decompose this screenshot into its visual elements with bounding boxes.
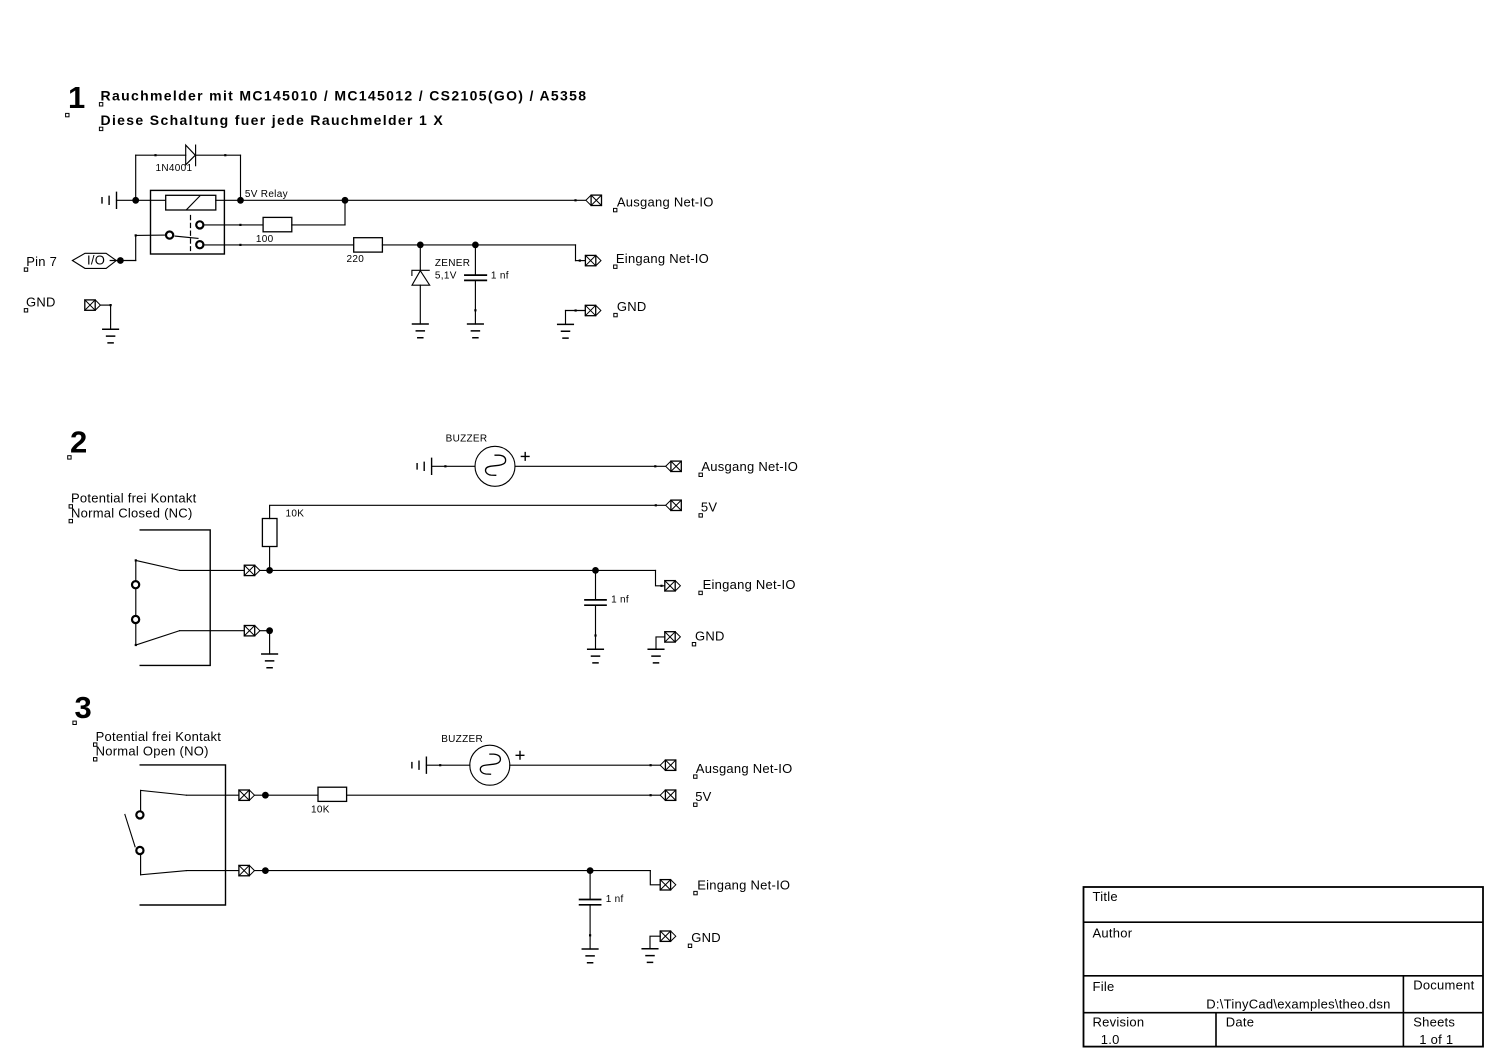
wire down to ground xyxy=(565,311,567,325)
svg-text:Sheets: Sheets xyxy=(1413,1015,1455,1030)
wire down to 5V relay node xyxy=(240,155,242,200)
ground below capacitor xyxy=(582,949,598,963)
svg-text:1 of 1: 1 of 1 xyxy=(1419,1032,1453,1047)
wire bottom blade to terminal xyxy=(180,630,245,632)
wire corner to Eingang xyxy=(650,871,660,885)
svg-text:Eingang Net-IO: Eingang Net-IO xyxy=(703,577,796,592)
title block row lines xyxy=(1084,922,1484,1013)
wire short from terminal xyxy=(260,630,270,632)
wire battery to relay coil xyxy=(117,199,166,201)
svg-text:220: 220 xyxy=(347,254,365,265)
wire tap up xyxy=(344,200,346,225)
wire zener to ground xyxy=(419,285,421,324)
switch S2 contact circles xyxy=(136,811,143,818)
svg-text:Ausgang Net-IO: Ausgang Net-IO xyxy=(701,459,798,474)
junction capacitor node xyxy=(587,867,594,874)
terminal GND xyxy=(660,931,676,941)
diode D1 1N4001 xyxy=(186,145,196,166)
wire top lead to terminal xyxy=(186,794,239,796)
svg-text:GND: GND xyxy=(695,628,725,643)
terminal on bottom contact xyxy=(244,626,260,636)
svg-text:2: 2 xyxy=(70,425,87,460)
svg-text:Normal Open (NO): Normal Open (NO) xyxy=(96,744,209,759)
switch S1 box xyxy=(140,530,210,666)
junction resistor tap xyxy=(342,197,349,204)
terminal GND right xyxy=(585,305,601,315)
switch S1 contact stem xyxy=(135,560,137,645)
svg-text:5,1V: 5,1V xyxy=(435,270,457,281)
switch S1 contact circles xyxy=(132,581,139,588)
ground below capacitor xyxy=(588,649,604,663)
wire down to ground xyxy=(269,631,271,654)
ground below capacitor xyxy=(468,324,484,338)
svg-text:Author: Author xyxy=(1093,926,1133,941)
relay coil xyxy=(166,195,216,210)
junction zener node xyxy=(417,242,424,249)
wire resistor bottom xyxy=(269,546,271,571)
switch S1 bottom blade xyxy=(136,631,180,645)
wire top main line xyxy=(260,569,656,571)
svg-text:1: 1 xyxy=(68,80,85,115)
wire corner down xyxy=(575,245,577,261)
junction capacitor node xyxy=(592,567,599,574)
terminal GND left xyxy=(85,300,101,310)
wire down to capacitor xyxy=(595,570,597,600)
battery B1 xyxy=(102,192,117,208)
wire capacitor to ground xyxy=(589,905,591,949)
switch S2 top stem xyxy=(140,790,142,874)
terminal on top contact xyxy=(244,565,260,575)
wire down to capacitor xyxy=(589,871,591,900)
terminal Eingang Net-IO xyxy=(585,255,601,265)
svg-text:Document: Document xyxy=(1413,978,1474,993)
terminal on top contact xyxy=(239,790,255,800)
terminal on bottom contact xyxy=(239,865,255,875)
junction at ground node xyxy=(266,627,273,634)
wire down to ground xyxy=(110,305,112,329)
svg-text:1.0: 1.0 xyxy=(1101,1032,1120,1047)
svg-text:1 nf: 1 nf xyxy=(491,270,509,281)
wire corner to Eingang xyxy=(656,570,665,585)
wire bottom lead to terminal xyxy=(186,870,239,872)
capacitor C1 1nf xyxy=(465,275,486,280)
buzzer BZ2 with battery xyxy=(412,745,524,785)
terminal Ausgang Net-IO xyxy=(666,461,682,471)
ground symbol xyxy=(642,949,658,963)
resistor R3 10K xyxy=(262,519,277,547)
svg-text:GND: GND xyxy=(691,930,721,945)
wire NO contact to R1 xyxy=(205,224,264,226)
svg-text:Diese Schaltung fuer jede Rauc: Diese Schaltung fuer jede Rauchmelder 1 … xyxy=(101,112,445,128)
wire GND terminal to corner xyxy=(100,304,110,306)
svg-text:Normal Closed (NC): Normal Closed (NC) xyxy=(71,505,193,520)
junction at battery node xyxy=(132,197,139,204)
wire buzzer to Ausgang terminal xyxy=(510,764,660,766)
wire terminal to resistor xyxy=(255,794,319,796)
junction 5V relay node xyxy=(237,197,244,204)
svg-text:Eingang Net-IO: Eingang Net-IO xyxy=(616,251,709,266)
switch S2 bottom lead xyxy=(141,871,187,875)
svg-text:3: 3 xyxy=(75,690,92,725)
svg-text:10K: 10K xyxy=(311,804,330,815)
svg-text:Potential frei Kontakt: Potential frei Kontakt xyxy=(96,729,222,744)
wire corner up xyxy=(135,235,137,260)
resistor R1 100 xyxy=(263,217,292,231)
svg-text:Ausgang Net-IO: Ausgang Net-IO xyxy=(696,761,793,776)
wire coil to Ausgang terminal xyxy=(216,199,586,201)
svg-text:Potential frei Kontakt: Potential frei Kontakt xyxy=(71,491,197,506)
svg-text:Eingang Net-IO: Eingang Net-IO xyxy=(697,877,790,892)
switch S2 box xyxy=(140,765,225,905)
resistor R2 220 xyxy=(354,238,383,252)
svg-text:ZENER: ZENER xyxy=(435,258,470,269)
switch S2 top lead xyxy=(141,790,187,795)
terminal GND xyxy=(665,632,681,642)
wire down to zener xyxy=(419,245,421,270)
svg-text:BUZZER: BUZZER xyxy=(446,434,488,445)
svg-text:BUZZER: BUZZER xyxy=(441,734,483,745)
ground symbol left xyxy=(103,329,119,343)
junction capacitor node xyxy=(472,242,479,249)
switch S1 top pivot xyxy=(135,559,137,561)
svg-text:Title: Title xyxy=(1093,889,1118,904)
title block frame xyxy=(1084,887,1484,1047)
terminal 5V xyxy=(660,790,676,800)
wire capacitor to ground xyxy=(595,605,597,649)
svg-text:5V: 5V xyxy=(701,500,717,515)
wire bottom main line xyxy=(255,870,651,872)
relay common contact xyxy=(166,232,173,239)
svg-text:100: 100 xyxy=(256,234,274,245)
terminal Ausgang Net-IO xyxy=(660,760,676,770)
resistor R4 10K xyxy=(318,787,347,801)
svg-text:Revision: Revision xyxy=(1093,1015,1145,1030)
svg-text:Rauchmelder mit MC145010 / MC1: Rauchmelder mit MC145010 / MC145012 / CS… xyxy=(101,88,588,104)
svg-text:1 nf: 1 nf xyxy=(611,595,629,606)
wire GND terminal to ground xyxy=(650,936,660,949)
wire resistor top to 5V line xyxy=(270,505,666,518)
title block column lines xyxy=(1216,976,1403,1047)
wire up from junction xyxy=(135,155,137,200)
terminal Eingang Net-IO xyxy=(665,581,681,591)
wire GND terminal to ground xyxy=(656,637,665,649)
I/O port symbol xyxy=(72,253,116,268)
junction at I/O pin xyxy=(117,257,124,264)
wire R2 to corner xyxy=(382,244,575,246)
capacitor C3 1nf xyxy=(580,900,601,905)
svg-text:5V: 5V xyxy=(695,789,711,804)
wire resistor to 5V terminal xyxy=(347,794,661,796)
terminal Eingang Net-IO xyxy=(660,880,676,890)
svg-text:GND: GND xyxy=(26,295,56,310)
svg-text:Ausgang Net-IO: Ausgang Net-IO xyxy=(617,194,714,209)
buzzer BZ1 with battery xyxy=(417,446,529,486)
svg-text:File: File xyxy=(1093,979,1115,994)
svg-text:GND: GND xyxy=(617,299,647,314)
wire to relay common xyxy=(136,234,166,236)
zener diode D2 xyxy=(412,270,430,285)
wire NC contact to R2 xyxy=(205,244,354,246)
junction after terminal xyxy=(262,867,269,874)
svg-text:I/O: I/O xyxy=(87,253,105,268)
wire down to capacitor xyxy=(474,245,476,275)
wire I/O to corner xyxy=(110,260,136,262)
wire top left to diode xyxy=(136,154,186,156)
relay NO contact xyxy=(196,221,203,228)
svg-text:1N4001: 1N4001 xyxy=(156,163,193,174)
svg-text:D:\TinyCad\examples\theo.dsn: D:\TinyCad\examples\theo.dsn xyxy=(1206,996,1390,1011)
svg-text:10K: 10K xyxy=(286,509,305,520)
svg-text:Date: Date xyxy=(1226,1015,1254,1030)
switch S1 bottom pivot xyxy=(135,644,137,646)
junction at resistor node xyxy=(262,792,269,799)
relay blade xyxy=(175,236,198,238)
relay dashed link xyxy=(190,216,192,251)
junction at resistor node xyxy=(266,567,273,574)
wire capacitor to ground xyxy=(474,280,476,324)
wire buzzer to Ausgang terminal xyxy=(515,465,666,467)
terminal 5V xyxy=(666,500,682,510)
ground symbol right xyxy=(558,324,574,338)
capacitor C2 1nf xyxy=(585,600,606,605)
svg-text:Pin 7: Pin 7 xyxy=(26,254,57,269)
svg-text:1 nf: 1 nf xyxy=(606,894,624,905)
wire top blade to terminal xyxy=(180,569,245,571)
ground below zener xyxy=(413,324,429,338)
svg-text:5V Relay: 5V Relay xyxy=(245,189,288,200)
wire GND terminal left xyxy=(566,310,586,312)
ground symbol xyxy=(648,649,664,663)
relay NC contact xyxy=(196,241,203,248)
switch S2 open blade xyxy=(125,815,135,847)
terminal Ausgang Net-IO xyxy=(586,195,602,205)
wire R1 to tap xyxy=(292,224,345,226)
relay K1 outline box xyxy=(151,190,225,254)
wire corner to Eingang terminal xyxy=(576,260,586,262)
ground below switch xyxy=(262,654,278,668)
switch S1 top blade xyxy=(136,560,180,570)
wire diode to right corner xyxy=(196,154,241,156)
